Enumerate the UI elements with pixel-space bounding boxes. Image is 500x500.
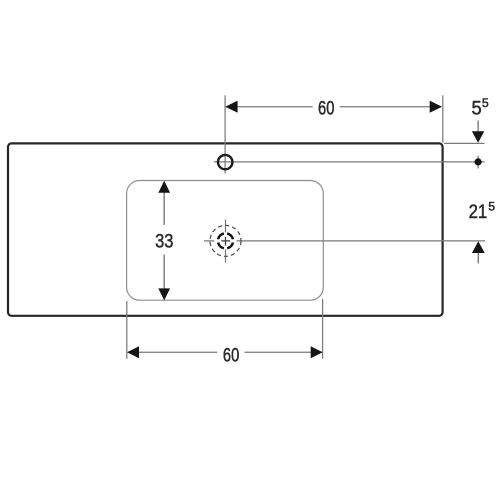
dimension line 33 vertical bbox=[163, 182, 165, 225]
svg-text:33: 33 bbox=[155, 231, 173, 253]
tap hole centerline vertical / extension line bbox=[224, 95, 226, 173]
svg-text:60: 60 bbox=[223, 344, 240, 366]
arrow down (5.5 dimension) bbox=[477, 121, 479, 134]
extension line left (bottom 60) bbox=[126, 301, 128, 359]
extension line right (bottom 60) bbox=[322, 299, 324, 359]
arrowhead left (top 60) bbox=[225, 101, 237, 113]
arrow up (21.5 dimension) bbox=[477, 252, 479, 264]
drain dashed circle bbox=[210, 225, 241, 256]
reference dot bbox=[475, 158, 482, 165]
washbasin outer outline bbox=[8, 143, 443, 315]
arrowhead right (top 60) bbox=[430, 101, 442, 113]
tap hole centerline horizontal bbox=[214, 161, 485, 163]
drain hole arcs bbox=[218, 233, 233, 248]
basin bowl inner outline bbox=[127, 181, 324, 301]
dimension line 60 bottom bbox=[128, 351, 217, 353]
svg-text:5: 5 bbox=[488, 200, 495, 214]
tap hole bbox=[218, 155, 232, 169]
arrowhead up (33) bbox=[158, 181, 170, 193]
dimension line 60 top bbox=[226, 106, 313, 108]
reference line at worktop top edge (5.5 dimension) bbox=[444, 142, 484, 144]
arrowhead left (bottom 60) bbox=[127, 346, 139, 358]
svg-text:21: 21 bbox=[469, 201, 488, 223]
extension line right (top 60 dimension) bbox=[442, 95, 444, 142]
arrowhead right (bottom 60) bbox=[311, 346, 323, 358]
reference dot tick bbox=[477, 156, 479, 169]
svg-text:5: 5 bbox=[482, 96, 489, 110]
svg-text:60: 60 bbox=[318, 98, 335, 120]
drain centerline vertical bbox=[225, 220, 227, 233]
arrowhead down (33) bbox=[158, 288, 170, 300]
drain centerline horizontal bbox=[204, 240, 214, 242]
svg-text:5: 5 bbox=[472, 98, 482, 120]
